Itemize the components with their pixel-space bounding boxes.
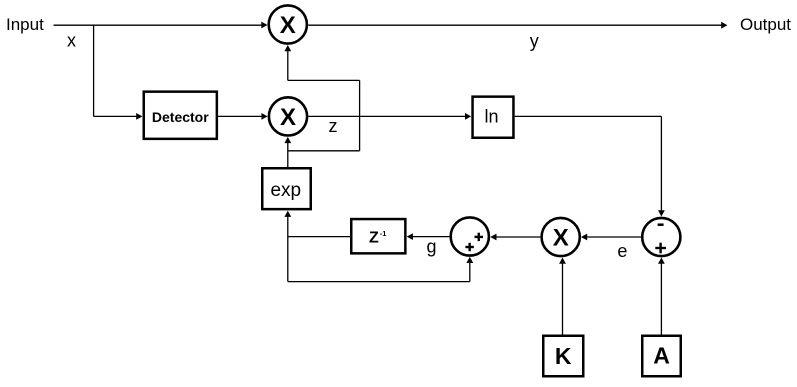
wire X3 to summer (490, 234, 540, 241)
svg-text:X: X (280, 12, 296, 39)
wire input line (54, 22, 268, 29)
svg-text:Input: Input (6, 15, 44, 34)
svg-text:ln: ln (484, 107, 498, 127)
svg-text:K: K (555, 343, 572, 369)
ln box (473, 97, 514, 138)
exp box (262, 168, 311, 209)
wire z-1 to exp junction (288, 236, 350, 238)
svg-text:x: x (67, 31, 76, 51)
wire output line (308, 22, 727, 29)
subtractor circle (642, 218, 680, 256)
svg-text:z: z (329, 116, 338, 136)
wire ln to subtractor (515, 116, 665, 216)
gain box K (543, 336, 583, 377)
svg-text:g: g (427, 236, 437, 256)
svg-text:exp: exp (270, 180, 301, 201)
wire exp to multiplier X2 (284, 137, 291, 167)
summer circle (451, 217, 489, 255)
wire K to multiplier X3 (559, 258, 566, 335)
wire junction vertical up into exp and down to feedback (284, 211, 291, 282)
svg-text:A: A (653, 342, 670, 368)
wire subtractor to multiplier X3 (e) (581, 234, 641, 241)
multiplier X1 (269, 5, 307, 43)
svg-text:X: X (280, 104, 296, 131)
wire summer to z-1 box (g) (407, 233, 450, 240)
wire gain branch to multiplier X1 (284, 45, 359, 151)
reference box A (642, 336, 681, 377)
delay box Z-1 (351, 219, 405, 253)
svg-text:e: e (617, 241, 627, 261)
svg-text:y: y (530, 31, 539, 51)
wire detector to multiplier X2 (218, 113, 268, 120)
svg-text:Detector: Detector (152, 109, 209, 125)
wire branch to detector (94, 25, 143, 120)
detector box (144, 92, 217, 139)
multiplier X3 (542, 218, 580, 256)
svg-text:Output: Output (740, 15, 791, 34)
svg-text:X: X (553, 225, 569, 252)
wire feedback bottom to summer (288, 257, 473, 282)
multiplier X2 (269, 97, 307, 135)
wire A to subtractor (658, 258, 665, 335)
svg-text:-1: -1 (380, 229, 387, 238)
svg-text:Z: Z (369, 229, 379, 246)
wire z line to ln (309, 113, 472, 120)
